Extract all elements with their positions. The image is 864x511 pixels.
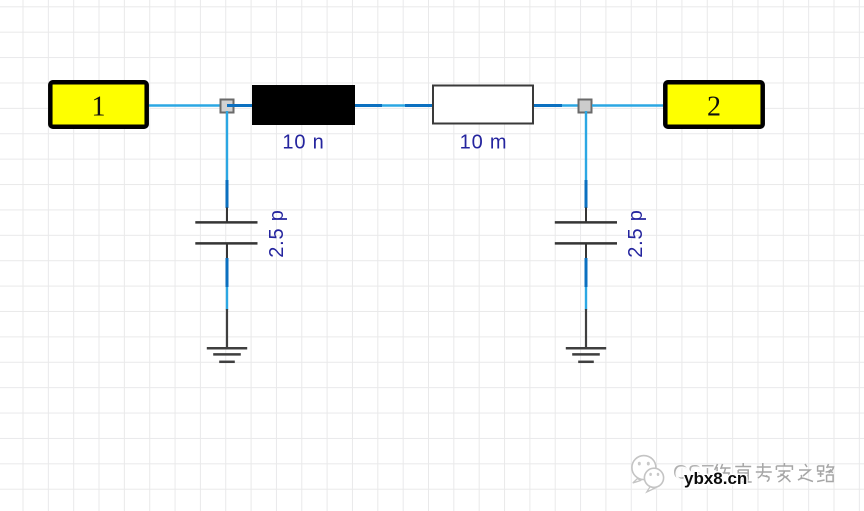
pin 2 of capacitor C1 [226, 258, 229, 287]
svg-text:10 n: 10 n [282, 131, 324, 153]
wire node N1 down to capacitor C1 [226, 111, 228, 180]
watermark wechat icon [632, 456, 664, 492]
wire R1 to node N2 [562, 104, 580, 106]
pin 1 of capacitor C1 [226, 180, 229, 208]
node N1 junction square [221, 100, 234, 113]
port 2 external port box [665, 82, 762, 126]
wire node N2 down to capacitor C2 [585, 111, 587, 180]
pin 1 of inductor L1 [227, 104, 252, 107]
watermark chinese characters (simplified strokes) [715, 463, 834, 483]
resistor R1 body [433, 86, 533, 124]
node N2 junction square [579, 100, 592, 113]
svg-text:2: 2 [707, 92, 721, 123]
svg-text:2.5 p: 2.5 p [625, 209, 647, 257]
ground GND2 [566, 309, 606, 362]
port 1 external port box [50, 82, 146, 126]
svg-text:10 m: 10 m [460, 132, 508, 154]
svg-text:ybx8.cn: ybx8.cn [684, 469, 747, 488]
pin 1 of resistor R1 [405, 104, 432, 107]
svg-text:1: 1 [92, 92, 106, 123]
inductor L1 body [252, 85, 355, 125]
wire node N2 to port2 [592, 104, 663, 106]
svg-text:2.5 p: 2.5 p [266, 209, 288, 257]
wire capacitor C1 to ground GND1 [226, 287, 228, 310]
wire capacitor C2 to ground GND2 [585, 287, 587, 310]
watermark text CST (embossed) [673, 461, 716, 485]
ground GND1 [207, 309, 247, 362]
wire port1 to node N1 [149, 104, 222, 106]
pin 2 of capacitor C2 [585, 258, 588, 287]
capacitor C1 body [195, 208, 257, 259]
capacitor C2 body [555, 208, 617, 259]
watermark text ybx8.cn [684, 469, 747, 488]
pin 2 of inductor L1 [355, 104, 382, 107]
pin 1 of capacitor C2 [585, 180, 588, 208]
wire L1 to R1 [382, 104, 405, 106]
pin 2 of resistor R1 [534, 104, 562, 107]
